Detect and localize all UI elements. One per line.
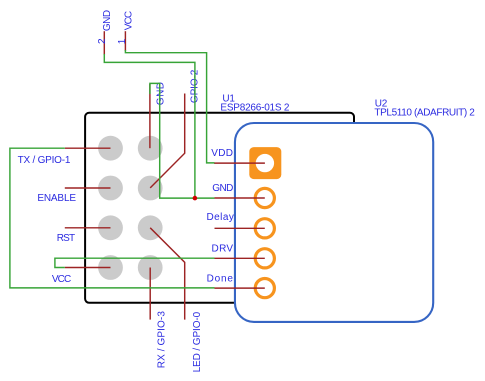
U1 pad GPIO-0 xyxy=(138,215,163,240)
U1 pin lead RST xyxy=(65,227,111,229)
U2 pad Delay (ring) xyxy=(255,219,274,238)
U2 refdes and value label xyxy=(374,99,475,119)
U1 pin lead TX/GPIO-1 xyxy=(65,147,111,149)
U1 pin lead VCC xyxy=(65,267,111,269)
svg-text:GND: GND xyxy=(156,81,167,105)
U1 refdes and value label xyxy=(220,94,290,114)
U2 pin lead GND xyxy=(215,197,265,199)
junction dot net GND xyxy=(193,196,198,201)
svg-text:1: 1 xyxy=(117,38,128,44)
svg-text:VCC: VCC xyxy=(123,11,134,30)
U2 pin lead DRV xyxy=(215,257,265,259)
U1 pad TX/GPIO-1 xyxy=(98,136,123,161)
U1 pad GND xyxy=(138,136,163,161)
U2 pin lead Delay xyxy=(215,227,265,229)
U1 pin lead GPIO-0 xyxy=(150,228,185,320)
wire net GND: U1 GND pin to U2 GND xyxy=(150,83,215,198)
svg-text:RX / GPIO-3: RX / GPIO-3 xyxy=(157,311,168,369)
svg-text:LED / GPIO-0: LED / GPIO-0 xyxy=(192,311,203,372)
svg-text:VDD: VDD xyxy=(211,148,233,159)
wire net GND: pin2 to junction xyxy=(104,54,195,198)
svg-text:DRV: DRV xyxy=(212,243,234,254)
U1 pad RST xyxy=(98,215,123,240)
U2 pad VDD (square with hole) xyxy=(249,147,281,179)
svg-text:GND: GND xyxy=(212,183,233,194)
U2 pad Done (ring) xyxy=(255,279,274,298)
U1 pad VCC xyxy=(98,255,123,280)
svg-text:ESP8266-01S 2: ESP8266-01S 2 xyxy=(220,102,290,113)
U1 pad RX/GPIO-3 xyxy=(138,255,163,280)
power connector pin 1 VCC lead xyxy=(124,31,126,51)
power connector pin 2 GND lead xyxy=(103,31,105,55)
U1 pin lead GND (top) xyxy=(149,84,151,148)
wire net DRV: U1 VCC pin to U2 DRV xyxy=(55,258,215,267)
U1 pad GPIO-2 xyxy=(138,176,163,201)
module U2 TPL5110 (ADAFRUIT) body xyxy=(235,123,433,322)
svg-text:2: 2 xyxy=(97,38,108,44)
U1 pin lead ENABLE xyxy=(65,187,111,189)
U1 pad ENABLE xyxy=(98,176,123,201)
svg-text:GND: GND xyxy=(102,10,113,31)
svg-text:ENABLE: ENABLE xyxy=(37,193,76,204)
U2 pad DRV (ring) xyxy=(255,249,274,268)
module U1 ESP8266-01S body xyxy=(85,113,354,303)
wire net VCC: pin1 to U2 VDD xyxy=(125,50,214,163)
svg-text:Delay: Delay xyxy=(206,212,234,223)
U1 pin lead GPIO-2 xyxy=(150,94,185,188)
U2 pad GND (ring) xyxy=(255,188,274,207)
wire net Done: U1 TX/GPIO-1 pin to U2 Done xyxy=(10,148,215,288)
U1 pin lead RX/GPIO-3 xyxy=(149,268,151,320)
svg-text:RST: RST xyxy=(57,233,75,244)
svg-text:TPL5110 (ADAFRUIT) 2: TPL5110 (ADAFRUIT) 2 xyxy=(374,107,475,118)
svg-text:Done: Done xyxy=(207,273,234,284)
U2 pin lead Done xyxy=(215,287,265,289)
svg-text:VCC: VCC xyxy=(52,274,71,285)
U2 pin lead VDD xyxy=(214,162,265,164)
svg-text:TX / GPIO-1: TX / GPIO-1 xyxy=(18,155,71,166)
